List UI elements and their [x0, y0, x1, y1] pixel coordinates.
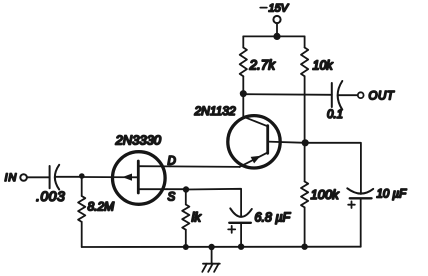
source node dot — [183, 186, 189, 192]
svg-text:2.7k: 2.7k — [249, 58, 277, 73]
svg-text:10 µF: 10 µF — [377, 189, 408, 201]
wire source — [167, 188, 186, 190]
rail dot ground — [208, 244, 214, 250]
wire IN to cap — [27, 176, 50, 178]
junction dot supply node — [273, 33, 280, 40]
svg-text:6.8 µF: 6.8 µF — [255, 211, 292, 225]
node B dot — [302, 139, 309, 146]
rail dot 100k — [301, 244, 307, 250]
ground — [202, 247, 220, 272]
capacitor 10uF — [347, 188, 407, 246]
wire cap to gate node — [56, 176, 82, 178]
wire bottom rail — [82, 246, 361, 248]
power terminal -15V — [260, 3, 289, 37]
input terminal IN — [5, 172, 27, 184]
resistor 1k — [182, 190, 202, 248]
capacitor 6.8uF — [228, 208, 291, 246]
svg-text:IN: IN — [5, 172, 18, 184]
svg-text:OUT: OUT — [369, 91, 395, 103]
wire node A to output cap — [243, 93, 331, 96]
svg-text:10k: 10k — [313, 59, 334, 73]
svg-text:0.1: 0.1 — [327, 109, 343, 121]
transistor Q2 2N1132 — [194, 104, 281, 168]
rail dot 6.8uF — [238, 244, 244, 250]
wire drain to Q2 emitter — [170, 165, 240, 168]
wire top rail — [243, 35, 304, 37]
svg-text:2N3330: 2N3330 — [115, 133, 162, 148]
wire collector from node A — [242, 94, 244, 117]
transistor Q1 2N3330 — [113, 133, 176, 205]
wire source node to 6.8uF — [186, 189, 241, 217]
capacitor .003 — [36, 165, 65, 204]
svg-text:.003: .003 — [36, 188, 65, 204]
node A dot — [240, 90, 247, 97]
svg-text:2N1132: 2N1132 — [194, 104, 236, 118]
wire node B to 10uF — [305, 143, 361, 194]
capacitor 0.1 — [327, 81, 343, 121]
svg-text:8.2M: 8.2M — [88, 200, 115, 214]
resistor 10k — [301, 36, 333, 142]
resistor 8.2M — [78, 176, 114, 247]
svg-text:15V: 15V — [269, 3, 290, 15]
rail dot 1k — [183, 244, 189, 250]
wire gate — [82, 176, 139, 178]
svg-text:S: S — [168, 192, 176, 204]
resistor 100k — [301, 143, 340, 247]
resistor 2.7k — [240, 36, 277, 93]
wire base to node B — [268, 142, 306, 143]
output terminal OUT — [358, 91, 395, 103]
wire cap to OUT — [339, 94, 358, 96]
gate node dot — [79, 173, 85, 179]
svg-text:100k: 100k — [311, 187, 341, 202]
svg-text:lk: lk — [192, 210, 203, 225]
